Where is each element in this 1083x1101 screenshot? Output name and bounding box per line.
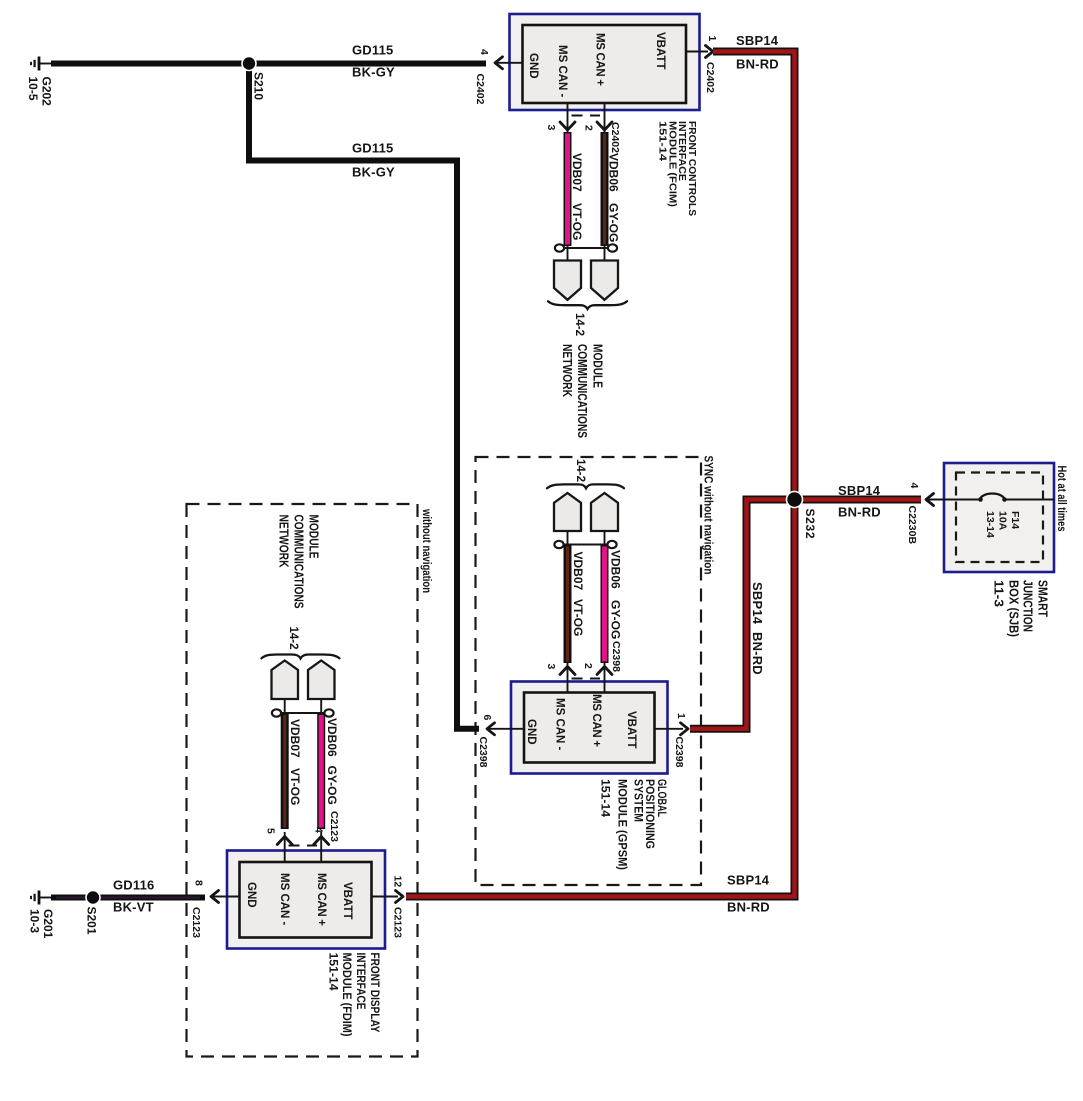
splice S210 (242, 57, 256, 71)
svg-text:BK-VT: BK-VT (113, 900, 154, 915)
svg-text:14-2: 14-2 (287, 627, 299, 650)
svg-text:VBATT: VBATT (341, 882, 353, 919)
wire GD115 branch S210 to GPSM pin 6 (249, 64, 479, 729)
svg-text:C2398: C2398 (477, 737, 489, 768)
svg-text:MS CAN +: MS CAN + (590, 694, 602, 747)
GPSM pin 1 line and arrow (655, 728, 684, 730)
wire VDB07 VT-OG (FCM) (564, 132, 572, 246)
svg-text:MS CAN -: MS CAN - (554, 698, 566, 751)
FDIM pin 12 line and arrow (372, 896, 399, 898)
brace 14-2 (FDIM) (262, 655, 340, 659)
module GPSM outer box (511, 682, 668, 774)
svg-text:BK-GY: BK-GY (352, 65, 395, 80)
svg-text:GY-OG: GY-OG (609, 600, 623, 639)
dashed box without navigation (187, 504, 418, 1057)
wire VDB07 VT-OG (FDIM) (281, 714, 289, 830)
svg-text:VDB07: VDB07 (288, 719, 302, 758)
FCM pin 2 line and arrow (604, 103, 606, 133)
svg-text:S210: S210 (252, 72, 266, 100)
svg-text:GND: GND (527, 53, 539, 79)
svg-text:SBP14: SBP14 (727, 873, 770, 888)
wire VDB06 GY-OG (FDIM) (317, 714, 325, 830)
connector C2398 dashed marker (572, 678, 601, 680)
connector C2123 dashed marker (289, 845, 318, 847)
svg-text:BN-RD: BN-RD (838, 505, 881, 520)
wire VDB07 VT-OG (GPSM) (564, 545, 572, 663)
connector C2402 dashed marker (572, 115, 601, 117)
dashed box SYNC without navigation (476, 457, 702, 885)
network connector pentagon (GPSM left) (554, 493, 581, 531)
svg-text:VDB07: VDB07 (570, 153, 584, 192)
svg-text:VBATT: VBATT (625, 711, 637, 748)
svg-text:MS CAN +: MS CAN + (594, 33, 606, 86)
svg-text:SYNC without navigation: SYNC without navigation (702, 456, 714, 575)
svg-text:14-2: 14-2 (574, 459, 586, 482)
svg-text:VDB06: VDB06 (325, 718, 339, 757)
svg-text:C2402: C2402 (704, 62, 716, 93)
wire VDB06 GY-OG (FCM) (601, 132, 609, 246)
splice S232 (787, 492, 803, 508)
svg-text:GD115: GD115 (352, 43, 393, 58)
brace 14-2 (FCM) (548, 301, 627, 309)
svg-text:Hot at all times: Hot at all times (1055, 466, 1067, 532)
splice S201 (86, 891, 100, 905)
svg-text:without navigation: without navigation (420, 508, 432, 593)
brace 14-2 (GPSM) (547, 484, 624, 488)
svg-text:F14: F14 (1009, 511, 1021, 529)
svg-text:S201: S201 (85, 907, 99, 935)
module GPSM inner box (524, 693, 655, 763)
SJB pin 4 arrow (927, 499, 944, 501)
svg-text:SBP14: SBP14 (736, 33, 779, 48)
svg-text:VBATT: VBATT (654, 32, 666, 69)
svg-text:12: 12 (392, 876, 404, 888)
twisted pair loop (FCM) (555, 244, 617, 260)
SJB inner dashed box (956, 473, 1043, 563)
svg-text:C2123: C2123 (190, 907, 202, 938)
wire GD115 G202 to FCM pin 4 (51, 61, 486, 67)
wire VDB06 GY-OG (GPSM) (601, 545, 609, 663)
network connector pentagon (FCM left) (554, 261, 581, 300)
module FCIM inner box (523, 25, 687, 103)
module FDIM outer box (227, 851, 385, 949)
svg-text:GND: GND (245, 882, 257, 908)
svg-text:BK-GY: BK-GY (352, 165, 395, 180)
wire SBP14 S232 to SJB (795, 496, 922, 504)
svg-text:VDB07: VDB07 (571, 552, 585, 591)
svg-text:MS CAN +: MS CAN + (315, 873, 327, 926)
GPSM pin 3 line and arrow (567, 662, 569, 693)
svg-text:MS CAN -: MS CAN - (556, 45, 568, 98)
wire GD116 G201 to FDIM pin 8 (51, 895, 205, 901)
wire SBP14 main run FCM pin1 to FDIM pin12 (406, 52, 795, 897)
FCM pin 3 line and arrow (567, 103, 569, 133)
ground G202 (31, 57, 53, 71)
network connector pentagon (FDIM left) (272, 661, 299, 700)
smart junction box SJB outer (944, 463, 1054, 572)
svg-text:C2398: C2398 (610, 641, 622, 672)
network connector pentagon (FCM right) (591, 261, 618, 300)
svg-text:BN-RD: BN-RD (727, 900, 770, 915)
svg-text:4: 4 (478, 49, 490, 55)
FDIM pin 5 line and arrow (284, 832, 286, 862)
FDIM pin 4 line and arrow (320, 832, 322, 862)
svg-text:BN-RD: BN-RD (750, 632, 765, 675)
svg-text:VT-OG: VT-OG (288, 768, 302, 805)
svg-text:4: 4 (908, 483, 920, 489)
svg-text:2: 2 (583, 125, 595, 131)
twisted pair loop (FDIM) (272, 699, 334, 717)
svg-text:1: 1 (675, 713, 687, 719)
FCM pin 1 line and arrow (686, 51, 708, 53)
ground G201 (31, 891, 53, 905)
FDIM pin 8 line and arrow (213, 896, 240, 898)
svg-text:S232: S232 (803, 509, 817, 539)
svg-text:C2230B: C2230B (906, 506, 918, 545)
svg-text:1: 1 (706, 36, 718, 42)
svg-text:14-2: 14-2 (573, 313, 585, 336)
svg-text:VT-OG: VT-OG (570, 203, 584, 240)
svg-text:GY-OG: GY-OG (325, 766, 339, 805)
svg-text:13-14: 13-14 (984, 511, 996, 538)
GPSM pin 6 line and arrow (488, 728, 524, 730)
module FCIM outer box (510, 14, 700, 110)
svg-text:4: 4 (313, 827, 325, 833)
GPSM pin 2 line and arrow (604, 662, 606, 693)
svg-text:MS CAN -: MS CAN - (278, 873, 290, 926)
svg-text:2: 2 (582, 663, 594, 669)
svg-text:C2402: C2402 (609, 122, 621, 153)
svg-text:VDB06: VDB06 (609, 550, 623, 589)
svg-text:C2402: C2402 (474, 74, 486, 105)
wire SBP14 S232 to GPSM pin 1 (690, 500, 795, 729)
svg-text:SBP14: SBP14 (750, 582, 765, 625)
svg-text:GY-OG: GY-OG (607, 203, 621, 242)
FCM pin 4 line and arrow (497, 62, 523, 64)
svg-text:VDB06: VDB06 (607, 153, 621, 192)
svg-text:3: 3 (545, 125, 557, 131)
svg-text:8: 8 (193, 880, 205, 886)
svg-text:GD115: GD115 (352, 141, 393, 156)
fuse F14 10A 13-14 (944, 493, 1054, 538)
svg-text:VT-OG: VT-OG (571, 599, 585, 636)
svg-text:C2123: C2123 (392, 907, 404, 938)
module FDIM inner box (240, 862, 372, 938)
network connector pentagon (FDIM right) (308, 661, 335, 700)
svg-text:C2398: C2398 (673, 737, 685, 768)
svg-text:SBP14: SBP14 (838, 483, 881, 498)
svg-text:C2123: C2123 (328, 811, 340, 842)
svg-text:GD116: GD116 (113, 878, 154, 893)
twisted pair loop (GPSM) (554, 531, 616, 548)
svg-text:6: 6 (481, 715, 493, 721)
svg-text:BN-RD: BN-RD (736, 57, 779, 72)
svg-text:10A: 10A (997, 511, 1009, 531)
network connector pentagon (GPSM right) (591, 493, 618, 531)
svg-text:GND: GND (525, 719, 537, 745)
svg-text:5: 5 (265, 828, 277, 834)
svg-text:3: 3 (545, 664, 557, 670)
